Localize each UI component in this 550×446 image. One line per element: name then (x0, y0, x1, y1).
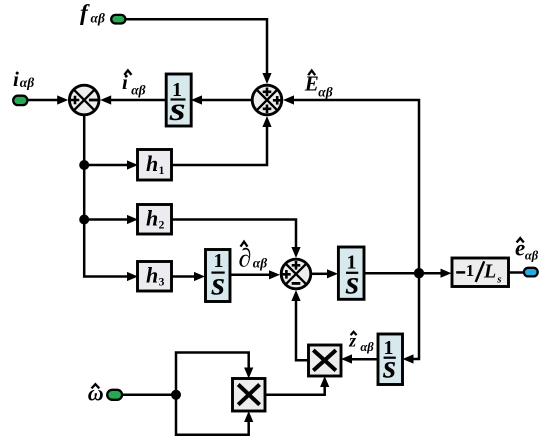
svg-text:s: s (382, 349, 396, 385)
svg-text:3: 3 (159, 277, 165, 289)
svg-text:αβ: αβ (20, 75, 34, 90)
svg-text:αβ: αβ (360, 340, 374, 354)
svg-text:h: h (146, 151, 158, 176)
svg-text:αβ: αβ (525, 248, 539, 262)
svg-text:s: s (210, 267, 225, 303)
svg-text:E: E (304, 72, 319, 96)
svg-text:αβ: αβ (318, 84, 332, 99)
svg-text:i: i (13, 67, 19, 91)
svg-text:αβ: αβ (131, 82, 145, 97)
svg-text:αβ: αβ (253, 255, 267, 270)
svg-text:∂: ∂ (239, 244, 252, 273)
svg-text:αβ: αβ (91, 10, 105, 25)
svg-text:s: s (168, 92, 185, 128)
svg-text:L: L (483, 261, 496, 283)
svg-text:h: h (146, 206, 158, 231)
svg-text:1: 1 (466, 261, 475, 280)
svg-text:s: s (345, 266, 360, 302)
svg-text:s: s (496, 274, 501, 286)
svg-text:2: 2 (159, 220, 165, 232)
svg-text:1: 1 (159, 165, 165, 177)
svg-text:h: h (146, 263, 158, 288)
